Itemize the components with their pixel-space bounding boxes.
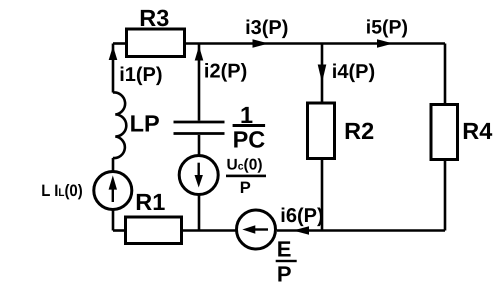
svg-text:R3: R3	[139, 5, 169, 31]
svg-text:E: E	[277, 237, 292, 262]
svg-text:P: P	[240, 179, 251, 197]
svg-text:R4: R4	[462, 118, 492, 144]
svg-text:i3(P): i3(P)	[245, 17, 288, 39]
svg-text:LP: LP	[130, 111, 160, 137]
svg-text:PC: PC	[233, 127, 266, 153]
svg-text:R1: R1	[135, 189, 165, 215]
svg-text:i5(P): i5(P)	[366, 17, 408, 39]
svg-text:1: 1	[240, 102, 253, 128]
svg-text:P: P	[277, 262, 292, 287]
svg-text:Uc(0): Uc(0)	[227, 156, 263, 173]
svg-text:i2(P): i2(P)	[204, 61, 247, 83]
svg-text:i6(P): i6(P)	[280, 205, 323, 227]
svg-text:R2: R2	[344, 118, 374, 144]
svg-text:i1(P): i1(P)	[119, 64, 162, 86]
svg-text:i4(P): i4(P)	[332, 61, 375, 83]
